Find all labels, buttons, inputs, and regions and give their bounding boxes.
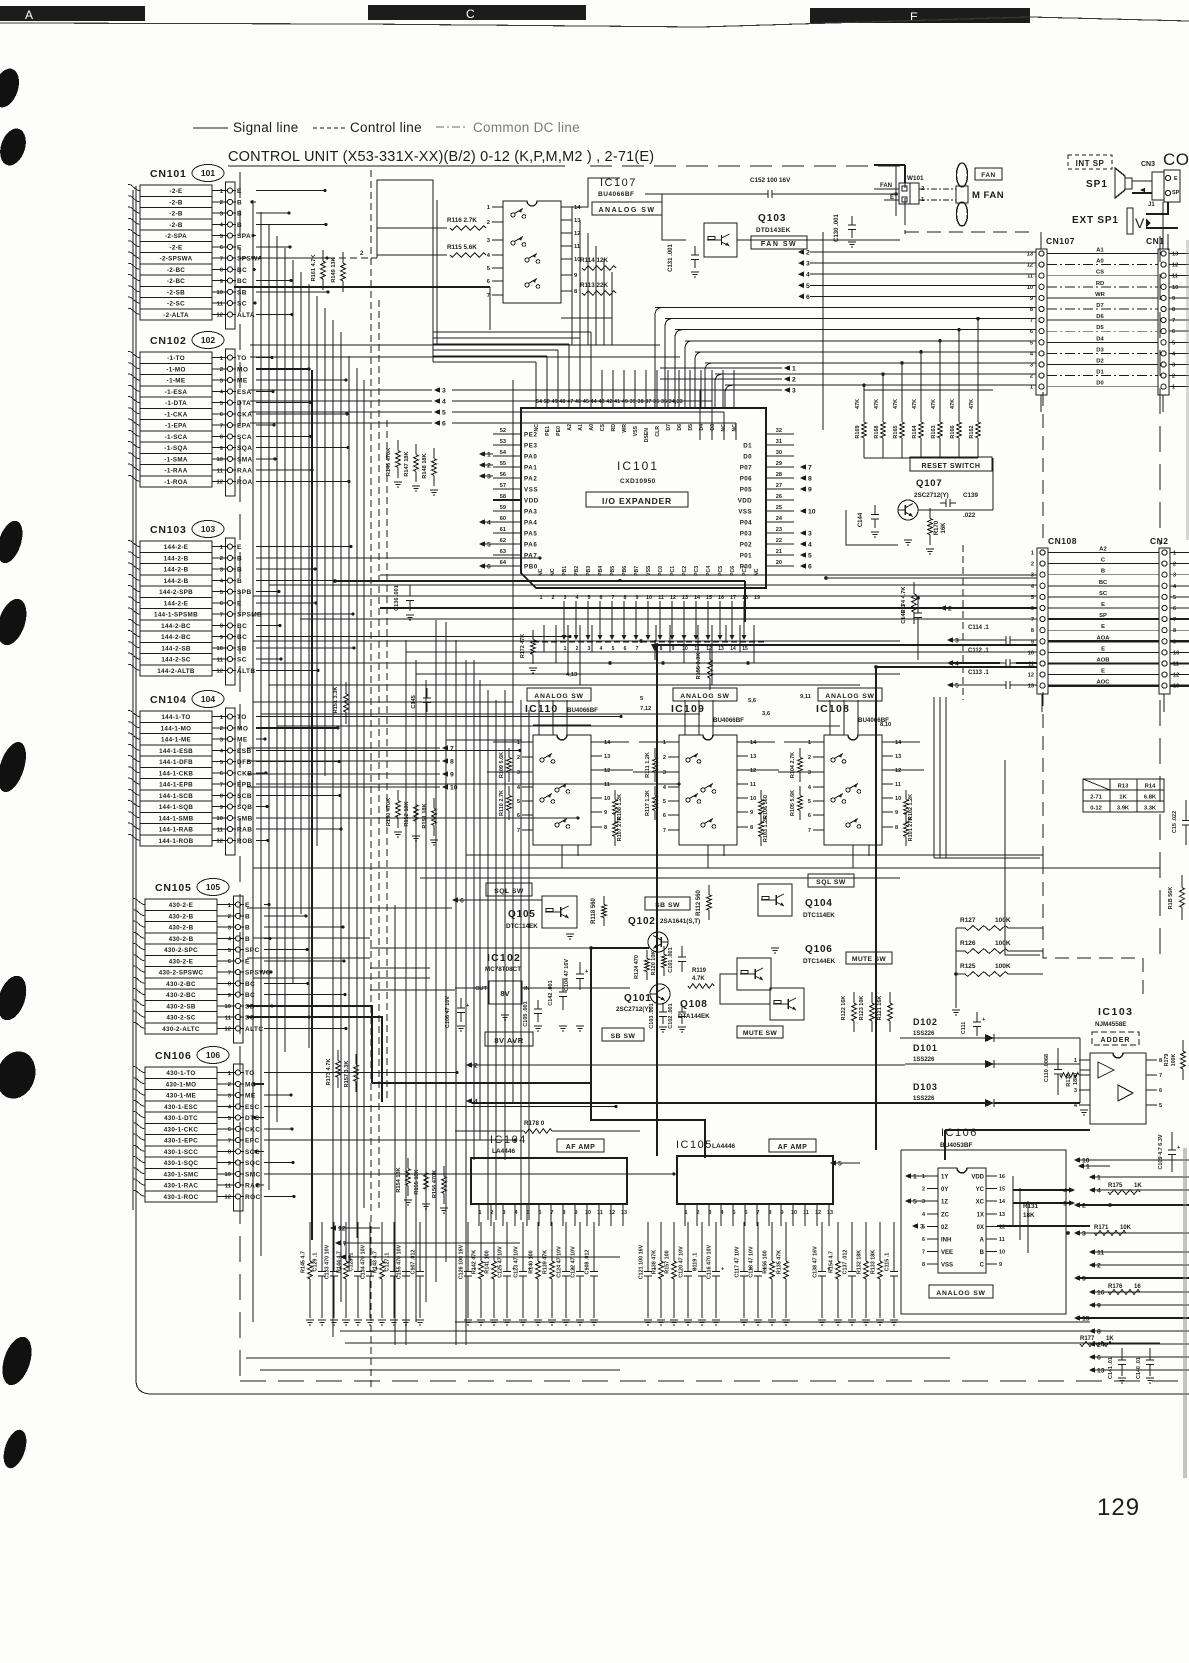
svg-text:E: E [237, 188, 242, 195]
svg-text:106: 106 [206, 1050, 220, 1060]
dashed border segment between CN107 and CN108 [1043, 392, 1143, 1000]
svg-text:8: 8 [1030, 307, 1033, 313]
svg-text:IC103: IC103 [1098, 1006, 1134, 1018]
svg-text:AOB: AOB [1097, 658, 1110, 664]
svg-text:AF AMP: AF AMP [778, 1144, 808, 1151]
svg-text:PE3: PE3 [524, 443, 538, 450]
svg-text:R144 4.7: R144 4.7 [337, 1251, 343, 1273]
svg-text:1: 1 [348, 1255, 352, 1262]
svg-text:DTC144EK: DTC144EK [803, 958, 836, 965]
svg-text:C122 47 10V: C122 47 10V [571, 1246, 577, 1278]
svg-text:DFB: DFB [237, 759, 252, 766]
svg-text:D0: D0 [1096, 381, 1103, 387]
svg-text:SB SW: SB SW [611, 1033, 636, 1040]
svg-text:PC6: PC6 [730, 566, 736, 576]
svg-text:1: 1 [220, 356, 224, 362]
svg-text:SCC: SCC [245, 1149, 260, 1156]
wire CN104 terminal arrows 7-10 [247, 745, 458, 791]
svg-text:2: 2 [228, 914, 231, 920]
svg-text:7: 7 [1031, 617, 1034, 623]
svg-text:4: 4 [220, 749, 224, 755]
svg-text:10: 10 [1027, 285, 1033, 291]
svg-text:PB6: PB6 [622, 566, 628, 576]
transistor Q107 2SC2712 [898, 478, 949, 520]
capacitor C130 .001 [834, 214, 856, 248]
scan page edge line [0, 17, 1189, 27]
svg-text:EPC: EPC [245, 1138, 260, 1145]
svg-text:47K: 47K [950, 399, 956, 409]
svg-text:1: 1 [1030, 385, 1033, 391]
label INT SP [1068, 155, 1112, 169]
svg-text:3: 3 [1082, 1231, 1086, 1238]
resistor R112 560 [696, 885, 711, 920]
svg-text:R103 1.2K: R103 1.2K [763, 816, 769, 842]
svg-text:R132 18K: R132 18K [857, 1250, 863, 1274]
svg-text:E: E [237, 544, 242, 551]
resistor R161 4.7K [311, 250, 325, 290]
svg-text:PA6: PA6 [524, 542, 537, 549]
svg-text:-1-MO: -1-MO [166, 366, 185, 373]
resistor R173 R157 pair [326, 1050, 358, 1092]
svg-text:IC109: IC109 [671, 703, 705, 715]
svg-text:VSS: VSS [941, 1263, 953, 1269]
svg-text:8: 8 [660, 646, 663, 652]
capacitor C122 [571, 1228, 589, 1325]
svg-text:PC2: PC2 [682, 566, 688, 576]
svg-text:SB: SB [237, 645, 247, 652]
svg-text:7: 7 [220, 423, 223, 429]
svg-text:5: 5 [808, 553, 812, 560]
svg-text:430-1-SMC: 430-1-SMC [164, 1171, 199, 1178]
svg-text:9: 9 [220, 279, 224, 285]
wire right terminal rows [1074, 1157, 1189, 1374]
svg-text:1: 1 [1086, 1164, 1090, 1171]
capacitor C113 .1 [947, 670, 1037, 690]
connector CN104 [128, 691, 253, 856]
svg-text:5: 5 [1030, 340, 1033, 346]
svg-text:ME: ME [245, 1093, 256, 1100]
svg-text:C106 47 10V: C106 47 10V [445, 996, 451, 1028]
svg-text:PB0: PB0 [524, 564, 538, 571]
svg-text:103: 103 [201, 524, 215, 534]
svg-text:3: 3 [220, 211, 224, 217]
svg-text:R1B 56K: R1B 56K [1168, 887, 1174, 910]
svg-text:1: 1 [1173, 551, 1176, 557]
resistor R122 16K [841, 992, 856, 1032]
svg-text:6: 6 [220, 245, 224, 251]
svg-text:5: 5 [517, 799, 520, 805]
svg-text:R127: R127 [960, 917, 976, 924]
svg-text:4: 4 [806, 272, 810, 279]
label SB SW [645, 897, 690, 910]
svg-text:8: 8 [228, 1150, 232, 1156]
svg-text:D3: D3 [710, 424, 716, 431]
connector CN103 [128, 521, 262, 686]
svg-text:3: 3 [1172, 363, 1175, 369]
svg-text:6: 6 [539, 1210, 542, 1216]
svg-text:SP: SP [1172, 190, 1180, 196]
wire IC107 upper routing [240, 178, 620, 345]
svg-text:3.9K: 3.9K [1117, 806, 1130, 812]
connector CN101 [128, 165, 262, 330]
svg-text:DTD143EK: DTD143EK [756, 227, 791, 234]
svg-text:CN106: CN106 [155, 1050, 192, 1062]
svg-text:PC4: PC4 [706, 566, 712, 576]
svg-text:4: 4 [487, 520, 491, 527]
svg-text:6: 6 [663, 813, 666, 819]
svg-text:12: 12 [225, 1027, 231, 1033]
resistor R175 1K [1108, 1183, 1142, 1194]
svg-text:B: B [245, 913, 250, 920]
svg-text:FAN SW: FAN SW [761, 241, 797, 248]
svg-text:8: 8 [220, 624, 224, 630]
svg-text:3: 3 [517, 770, 520, 776]
svg-text:6: 6 [460, 898, 464, 905]
svg-text:R140 100: R140 100 [529, 1250, 535, 1273]
connector CN108 [1028, 536, 1077, 712]
svg-text:1X: 1X [977, 1212, 984, 1218]
svg-text:9: 9 [672, 646, 675, 652]
svg-text:144-1-SCB: 144-1-SCB [159, 793, 193, 800]
svg-text:PC0: PC0 [658, 566, 664, 576]
svg-text:B: B [237, 199, 242, 206]
svg-text:-1-SMA: -1-SMA [164, 456, 188, 463]
resistor R172 47K [520, 630, 537, 673]
svg-text:6: 6 [1159, 1088, 1162, 1094]
label RESET SWITCH [910, 457, 992, 471]
svg-text:3: 3 [228, 1093, 232, 1099]
svg-text:AOA: AOA [1097, 635, 1111, 641]
svg-text:R143 4.7: R143 4.7 [373, 1251, 379, 1273]
resistor R118 56K right edge [1168, 875, 1184, 920]
svg-text:1: 1 [1097, 1175, 1101, 1182]
svg-text:PB1: PB1 [562, 566, 568, 576]
svg-text:ANALOG SW: ANALOG SW [534, 693, 584, 700]
svg-text:R105 5.6K: R105 5.6K [790, 790, 796, 816]
svg-text:C104 47 16V: C104 47 16V [564, 959, 570, 991]
svg-text:4: 4 [220, 223, 224, 229]
svg-text:4: 4 [220, 579, 224, 585]
svg-text:8: 8 [604, 825, 607, 831]
wire mute area [370, 946, 770, 1158]
svg-text:4: 4 [220, 390, 224, 396]
svg-text:12: 12 [609, 1210, 615, 1216]
svg-text:CN101: CN101 [150, 168, 187, 180]
svg-text:-2-SPSWA: -2-SPSWA [160, 256, 193, 263]
svg-text:PE2: PE2 [524, 432, 538, 439]
svg-text:16: 16 [999, 1174, 1005, 1180]
resistor bank R146 R147 R148 [386, 440, 438, 495]
svg-text:NC: NC [534, 424, 540, 432]
svg-text:C116 470 10V: C116 470 10V [707, 1245, 713, 1280]
capacitor C109 4.7 6.3V [1158, 1132, 1180, 1172]
svg-text:2: 2 [663, 755, 666, 761]
svg-text:B: B [237, 222, 242, 229]
resistor R104 [790, 748, 802, 782]
svg-text:R157 3.3K: R157 3.3K [344, 1061, 350, 1088]
resistor R107 [613, 812, 623, 846]
svg-text:430-1-SCC: 430-1-SCC [164, 1149, 198, 1156]
svg-text:C125 47 10V: C125 47 10V [498, 1246, 504, 1278]
resistor R174 4.7K [901, 582, 916, 624]
svg-text:1: 1 [220, 189, 224, 195]
svg-text:430-1-EPC: 430-1-EPC [164, 1138, 198, 1145]
svg-text:8: 8 [922, 1262, 925, 1268]
svg-text:C139: C139 [963, 492, 979, 499]
svg-text:ME: ME [237, 737, 248, 744]
svg-text:R141 100: R141 100 [485, 1250, 491, 1273]
schematic dashed border right [1159, 236, 1161, 965]
svg-text:R106 560: R106 560 [763, 795, 769, 819]
svg-text:R119: R119 [692, 968, 707, 974]
svg-text:101: 101 [201, 168, 215, 178]
svg-text:13: 13 [827, 1210, 833, 1216]
svg-text:4: 4 [600, 646, 603, 652]
capacitor C114 .1 [947, 625, 1037, 645]
svg-text:5,6: 5,6 [748, 698, 757, 704]
wire AF amp output risers [655, 643, 1037, 1156]
svg-text:1SS226: 1SS226 [913, 1096, 935, 1102]
svg-text:12: 12 [1027, 263, 1033, 269]
svg-text:11: 11 [1097, 1250, 1104, 1257]
svg-text:10: 10 [225, 1172, 231, 1178]
svg-text:E: E [1101, 646, 1105, 652]
resistor R126 100K [956, 940, 1043, 953]
svg-text:ADDER: ADDER [1101, 1037, 1131, 1044]
svg-text:R154 4.7: R154 4.7 [829, 1251, 835, 1273]
svg-text:PA5: PA5 [524, 531, 537, 538]
svg-text:RAB: RAB [237, 827, 252, 834]
svg-text:2: 2 [808, 755, 811, 761]
label ANALOG SW for IC108 [818, 688, 882, 701]
transistor Q102 2SA1641 [628, 916, 700, 952]
svg-text:144-2-SPB: 144-2-SPB [159, 589, 193, 596]
svg-text:3: 3 [955, 638, 959, 645]
svg-text:9: 9 [228, 1161, 232, 1167]
svg-text:8,10: 8,10 [880, 722, 891, 728]
svg-text:CS: CS [1096, 270, 1104, 276]
svg-text:CN103: CN103 [150, 524, 187, 536]
svg-text:144-1-TO: 144-1-TO [161, 714, 190, 721]
svg-text:IC108: IC108 [816, 703, 850, 715]
resistor R108 [613, 790, 623, 824]
svg-text:C134 470 10V: C134 470 10V [361, 1244, 367, 1279]
svg-text:7: 7 [757, 1210, 760, 1216]
svg-text:D6: D6 [677, 424, 683, 431]
svg-text:1: 1 [479, 1210, 482, 1216]
svg-text:IC106: IC106 [941, 1127, 978, 1139]
svg-text:7: 7 [808, 828, 811, 834]
svg-text:2: 2 [576, 646, 579, 652]
svg-text:1: 1 [220, 715, 224, 721]
svg-text:-2-B: -2-B [169, 222, 183, 229]
wire reset area [846, 390, 993, 545]
svg-text:7: 7 [551, 1210, 554, 1216]
svg-text:1: 1 [220, 545, 224, 551]
svg-text:3: 3 [922, 1199, 925, 1205]
capacitor C125 [498, 1228, 516, 1325]
svg-text:10: 10 [217, 457, 223, 463]
svg-text:2: 2 [697, 1210, 700, 1216]
svg-text:R163: R163 [931, 425, 937, 438]
svg-text:5: 5 [228, 948, 232, 954]
svg-text:9: 9 [574, 273, 578, 279]
svg-text:15: 15 [742, 646, 748, 652]
fan motor M FAN [956, 163, 1004, 226]
svg-text:-1-SCA: -1-SCA [165, 434, 188, 441]
svg-text:144-1-CKB: 144-1-CKB [159, 770, 194, 777]
svg-text:9: 9 [450, 772, 454, 779]
svg-text:VDD: VDD [971, 1175, 984, 1181]
svg-text:6: 6 [624, 646, 627, 652]
svg-text:R101 27K: R101 27K [908, 817, 914, 842]
svg-text:PA2: PA2 [524, 476, 537, 483]
svg-text:C115 .1: C115 .1 [885, 1253, 891, 1272]
wire main mid bus junction [608, 640, 750, 665]
svg-text:4.7K: 4.7K [692, 976, 705, 982]
svg-text:C133 470 10V: C133 470 10V [325, 1244, 331, 1279]
svg-text:5: 5 [838, 1161, 842, 1168]
op IC106 BU4053BF analog switch [922, 1127, 1005, 1273]
svg-text:1: 1 [228, 1071, 232, 1077]
schematic dashed border top [590, 166, 1036, 232]
svg-text:R125: R125 [960, 963, 976, 970]
svg-text:A1: A1 [1096, 248, 1104, 254]
svg-text:C119 .1: C119 .1 [693, 1253, 699, 1272]
svg-text:14: 14 [604, 740, 611, 746]
svg-text:Q101: Q101 [624, 993, 652, 1004]
svg-text:-2-B: -2-B [169, 211, 183, 218]
svg-text:6: 6 [808, 564, 812, 571]
svg-text:59: 59 [500, 505, 506, 511]
svg-text:-2-BC: -2-BC [167, 278, 185, 285]
capacitor C119 [693, 1228, 707, 1325]
resistor R156 [763, 1228, 777, 1325]
svg-text:10: 10 [682, 646, 688, 652]
svg-text:P06: P06 [740, 476, 752, 483]
svg-text:10: 10 [225, 1004, 231, 1010]
svg-text:CN2: CN2 [1150, 536, 1169, 546]
svg-text:3: 3 [487, 238, 491, 244]
op IC102 MC78T08CT regulator [455, 952, 630, 1020]
svg-text:C124 47 10V: C124 47 10V [557, 1246, 563, 1278]
svg-text:1: 1 [922, 1174, 925, 1180]
label AF AMP for IC104 [557, 1139, 604, 1152]
svg-text:9: 9 [1097, 1303, 1101, 1310]
svg-text:LA4446: LA4446 [492, 1148, 516, 1155]
capacitor C131 .001 [668, 244, 699, 278]
svg-text:2: 2 [1173, 562, 1176, 568]
svg-text:7: 7 [220, 782, 223, 788]
wire CN108 feed lines [253, 575, 1037, 619]
svg-text:R169: R169 [855, 425, 861, 438]
svg-text:D5: D5 [1096, 325, 1104, 331]
svg-text:1: 1 [1172, 385, 1175, 391]
svg-text:4: 4 [808, 785, 812, 791]
svg-text:+: + [466, 1003, 469, 1009]
svg-text:10: 10 [585, 1210, 591, 1216]
svg-text:5: 5 [220, 234, 224, 240]
svg-text:21: 21 [776, 549, 782, 555]
svg-text:IC102: IC102 [487, 952, 521, 964]
svg-text:P03: P03 [740, 531, 752, 538]
capacitor C144 [858, 505, 879, 537]
svg-text:6: 6 [228, 959, 232, 965]
svg-text:5: 5 [1173, 595, 1176, 601]
wire verticals below IC101 [544, 625, 754, 685]
svg-text:144-2-B: 144-2-B [164, 578, 189, 585]
svg-text:R155 3.3K: R155 3.3K [696, 653, 702, 680]
svg-text:B: B [245, 925, 250, 932]
svg-text:-1-ROA: -1-ROA [164, 479, 188, 486]
svg-text:10K: 10K [1120, 1225, 1132, 1231]
svg-text:B: B [237, 567, 242, 574]
svg-text:R145 4.7: R145 4.7 [301, 1251, 307, 1273]
svg-text:12: 12 [895, 768, 901, 774]
svg-text:5: 5 [487, 542, 491, 549]
svg-text:Q102: Q102 [628, 916, 656, 927]
svg-text:B: B [237, 211, 242, 218]
wire CN102 signal stubs [256, 356, 351, 483]
svg-text:2: 2 [792, 377, 796, 384]
svg-text:NJM4558E: NJM4558E [1095, 1021, 1127, 1028]
svg-text:DTC: DTC [245, 1115, 260, 1122]
svg-text:VSS: VSS [524, 487, 538, 494]
svg-text:2: 2 [1030, 374, 1033, 380]
svg-text:100K: 100K [995, 940, 1011, 947]
wire analog sw bottom run [253, 855, 1160, 878]
svg-text:9: 9 [895, 810, 898, 816]
svg-text:BC: BC [245, 992, 255, 999]
svg-text:47K: 47K [874, 399, 880, 409]
svg-text:ROB: ROB [237, 838, 253, 845]
svg-text:R156 470K: R156 470K [432, 1170, 438, 1198]
svg-text:R120 10K: R120 10K [651, 951, 657, 976]
resistor R155 3.3K [696, 648, 712, 690]
svg-text:14: 14 [574, 205, 581, 211]
svg-text:1: 1 [487, 205, 491, 211]
wire vertical signal buses [253, 200, 364, 1337]
svg-text:ANALOG SW: ANALOG SW [936, 1290, 986, 1297]
svg-text:10: 10 [217, 646, 223, 652]
svg-text:2SC2712(Y): 2SC2712(Y) [616, 1006, 651, 1013]
resistor R145 [301, 1228, 315, 1325]
svg-text:3: 3 [220, 378, 224, 384]
svg-text:R133 18K: R133 18K [871, 1250, 877, 1274]
svg-text:R118 560: R118 560 [591, 897, 597, 923]
svg-text:E: E [237, 244, 242, 251]
transistor Q106 DTC144EK mute [737, 944, 836, 1020]
svg-text:PC5: PC5 [718, 566, 724, 576]
svg-text:P07: P07 [740, 465, 752, 472]
svg-text:10: 10 [750, 796, 756, 802]
svg-text:144-2-B: 144-2-B [164, 555, 189, 562]
svg-text:A1: A1 [578, 424, 584, 431]
svg-text:3: 3 [588, 646, 591, 652]
legend control line [313, 120, 422, 135]
wire R125 bus down [952, 928, 960, 1015]
svg-text:E: E [1101, 624, 1105, 630]
svg-text:5: 5 [220, 590, 224, 596]
svg-text:-2-ALTA: -2-ALTA [163, 312, 189, 319]
svg-text:32: 32 [776, 428, 782, 434]
svg-text:12: 12 [217, 480, 223, 486]
capacitor C104 47 16V [564, 959, 588, 1032]
svg-text:C113 .1: C113 .1 [968, 670, 989, 676]
svg-text:1: 1 [228, 903, 232, 909]
label ANALOG SW for IC107 [592, 202, 662, 215]
svg-text:C120 47 10V: C120 47 10V [679, 1246, 685, 1278]
